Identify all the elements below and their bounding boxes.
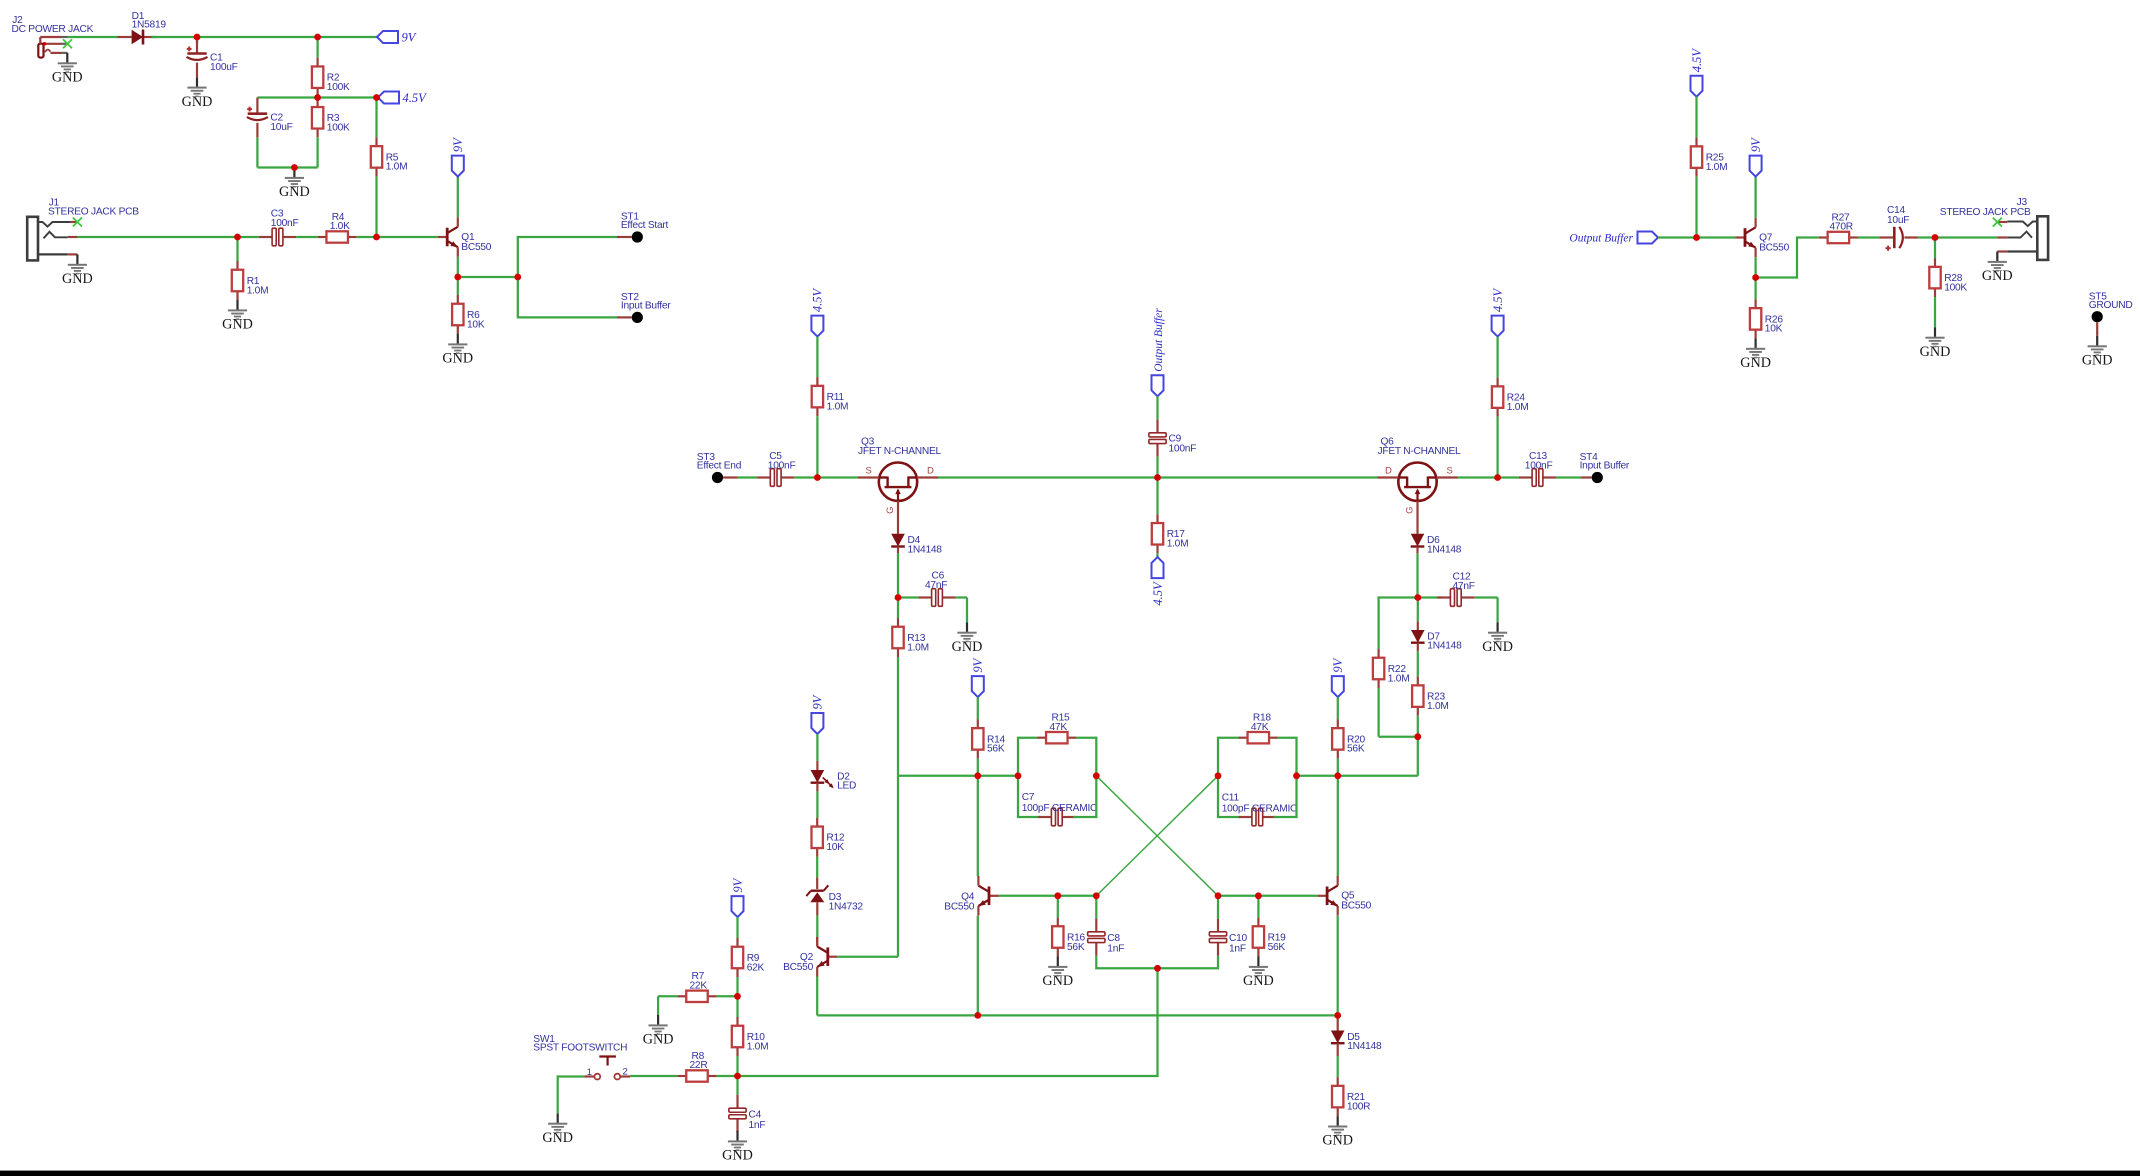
node C11 box left bbox=[1215, 772, 1222, 779]
svg-text:Effect Start: Effect Start bbox=[621, 220, 669, 231]
diode D4 bbox=[891, 534, 942, 556]
svg-text:Output Buffer: Output Buffer bbox=[1153, 308, 1165, 372]
node R25/Q7 base bbox=[1693, 234, 1700, 241]
wire bbox=[658, 995, 677, 997]
wire bbox=[1096, 776, 1218, 896]
wire bbox=[316, 37, 318, 58]
capacitor C6 bbox=[918, 571, 955, 607]
wire bbox=[977, 697, 979, 719]
resistor R17 bbox=[1152, 514, 1189, 553]
node ST5 bbox=[2089, 291, 2133, 322]
svg-text:56K: 56K bbox=[1347, 744, 1365, 755]
wire bbox=[1018, 776, 1040, 817]
diode D5 bbox=[1331, 1031, 1382, 1053]
capacitor C5 bbox=[757, 451, 795, 486]
node 4.5V / R5 bbox=[373, 94, 380, 101]
capacitor C14 bbox=[1879, 205, 1918, 251]
svg-text:STEREO JACK PCB: STEREO JACK PCB bbox=[48, 206, 139, 217]
wire bbox=[318, 96, 377, 98]
supply flag 4.5V supply bbox=[1491, 287, 1505, 336]
wire bbox=[1935, 236, 1997, 238]
supply flag 9V supply bbox=[377, 31, 417, 45]
no-connect mark bbox=[63, 39, 72, 48]
wire bbox=[1218, 738, 1240, 776]
ground (C6) bbox=[952, 622, 983, 655]
node ST2 bbox=[621, 292, 671, 323]
svg-text:4.5V: 4.5V bbox=[811, 287, 825, 312]
switch SW1 SPST footswitch bbox=[533, 1034, 630, 1080]
capacitor C13 bbox=[1519, 451, 1556, 486]
svg-text:GROUND: GROUND bbox=[2089, 300, 2133, 311]
wire bbox=[1057, 896, 1059, 918]
wire bbox=[236, 237, 238, 262]
wire bbox=[458, 276, 518, 278]
wire bbox=[816, 734, 818, 761]
node R14/Q4 col bbox=[974, 772, 981, 779]
ground (C12) bbox=[1482, 622, 1513, 655]
node ST4 bbox=[1580, 452, 1630, 483]
svg-text:47nF: 47nF bbox=[1453, 581, 1475, 592]
supply flag Output Buffer net flag bbox=[1569, 232, 1658, 245]
wire bbox=[1754, 257, 1756, 277]
node C8 top bbox=[1093, 892, 1100, 899]
wire bbox=[977, 758, 979, 775]
svg-text:10uF: 10uF bbox=[1887, 215, 1909, 226]
supply flag 4.5V supply bbox=[1690, 48, 1704, 97]
wire bbox=[999, 895, 1097, 897]
supply flag 9V supply bbox=[971, 657, 985, 697]
wire bbox=[717, 995, 738, 997]
supply flag 4.5V supply bbox=[811, 287, 825, 336]
wire bbox=[196, 40, 198, 54]
svg-text:1N4148: 1N4148 bbox=[1427, 641, 1462, 652]
wire bbox=[377, 236, 438, 238]
svg-text:100nF: 100nF bbox=[768, 461, 796, 472]
supply flag 9V supply bbox=[1749, 137, 1763, 177]
wire bbox=[816, 416, 818, 477]
ground (ST5) bbox=[2082, 336, 2113, 369]
svg-text:100K: 100K bbox=[327, 82, 350, 93]
wire bbox=[457, 277, 459, 295]
diode D7 bbox=[1411, 630, 1462, 652]
wire bbox=[738, 968, 1158, 1076]
capacitor C11 bbox=[1222, 793, 1297, 826]
capacitor C4 bbox=[729, 1095, 765, 1132]
wire bbox=[1918, 236, 1935, 238]
wire bbox=[1417, 643, 1419, 652]
wire bbox=[1458, 476, 1498, 478]
bottom border bar bbox=[0, 1171, 2140, 1176]
wire bbox=[1337, 1043, 1339, 1056]
wire bbox=[457, 257, 459, 277]
svg-text:1.0M: 1.0M bbox=[1388, 673, 1410, 684]
svg-text:56K: 56K bbox=[987, 744, 1005, 755]
wire bbox=[1337, 776, 1339, 877]
wire bbox=[630, 1075, 677, 1077]
node R4/R5/Q1 base bbox=[373, 234, 380, 241]
wire bbox=[736, 1076, 738, 1095]
resistor R8 bbox=[678, 1051, 717, 1082]
svg-text:D: D bbox=[927, 466, 934, 477]
svg-text:SPST FOOTSWITCH: SPST FOOTSWITCH bbox=[533, 1042, 627, 1053]
resistor R24 bbox=[1492, 378, 1529, 417]
wire bbox=[897, 553, 899, 597]
diode D1 bbox=[118, 11, 167, 45]
wire bbox=[1379, 598, 1418, 650]
wire bbox=[1417, 600, 1419, 630]
svg-text:GND: GND bbox=[643, 1032, 674, 1048]
node Q5 emitter / D5 bbox=[1334, 1012, 1341, 1019]
wire bbox=[296, 236, 318, 238]
wire bbox=[723, 476, 738, 478]
capacitor C7 bbox=[1022, 792, 1097, 826]
wire bbox=[816, 791, 818, 818]
wire bbox=[316, 96, 318, 99]
svg-text:G: G bbox=[1404, 507, 1415, 514]
wire bbox=[1417, 716, 1419, 737]
capacitor C8 bbox=[1088, 919, 1124, 956]
diode D6 bbox=[1411, 534, 1462, 556]
wire bbox=[816, 761, 818, 770]
ground (J3) bbox=[1982, 252, 2013, 285]
resistor R26 bbox=[1750, 299, 1783, 338]
wire bbox=[1417, 737, 1419, 776]
svg-text:4.5V: 4.5V bbox=[1491, 287, 1505, 312]
supply flag 9V supply bbox=[731, 877, 745, 917]
wire bbox=[794, 476, 817, 478]
ground (R21) bbox=[1322, 1116, 1353, 1149]
svg-text:1.0M: 1.0M bbox=[1427, 701, 1449, 712]
svg-text:1N4732: 1N4732 bbox=[829, 901, 864, 912]
resistor R3 bbox=[312, 98, 350, 137]
supply flag 4.5V supply bbox=[378, 91, 427, 105]
wire bbox=[518, 237, 617, 277]
wire bbox=[816, 977, 818, 1016]
wire bbox=[357, 236, 377, 238]
wire bbox=[657, 996, 659, 1015]
node C5/R11/Q3-S bbox=[814, 474, 821, 481]
resistor R28 bbox=[1929, 258, 1967, 297]
svg-text:GND: GND bbox=[1243, 973, 1274, 989]
wire bbox=[1496, 337, 1498, 378]
ground (R16) bbox=[1042, 957, 1073, 990]
wire bbox=[817, 476, 858, 478]
wire bbox=[1418, 596, 1442, 598]
svg-text:GND: GND bbox=[1322, 1133, 1353, 1149]
wire bbox=[1096, 956, 1157, 969]
svg-text:S: S bbox=[1447, 466, 1453, 477]
wire bbox=[1337, 697, 1339, 719]
svg-text:1: 1 bbox=[587, 1067, 592, 1078]
wire bbox=[736, 917, 738, 938]
wire bbox=[816, 857, 818, 878]
wire bbox=[196, 40, 198, 43]
svg-text:4.5V: 4.5V bbox=[1151, 581, 1165, 606]
resistor R12 bbox=[812, 818, 845, 857]
wire bbox=[816, 937, 818, 946]
node R16 top bbox=[1054, 892, 1061, 899]
LED D2 bbox=[811, 770, 857, 792]
transistor Q3 bbox=[858, 437, 941, 514]
no-connect mark bbox=[1993, 218, 2002, 227]
svg-text:10K: 10K bbox=[1765, 324, 1783, 335]
node R20/Q5 col bbox=[1334, 772, 1341, 779]
svg-text:BC550: BC550 bbox=[1341, 901, 1371, 912]
wire bbox=[1156, 396, 1158, 419]
svg-text:BC550: BC550 bbox=[944, 901, 974, 912]
wire bbox=[1754, 177, 1756, 218]
resistor R5 bbox=[371, 137, 408, 176]
wire bbox=[897, 657, 899, 776]
svg-text:47K: 47K bbox=[1050, 722, 1068, 733]
wire bbox=[1095, 896, 1097, 919]
svg-text:STEREO JACK PCB: STEREO JACK PCB bbox=[1940, 207, 2031, 218]
transistor Q4 bbox=[944, 876, 998, 916]
wire bbox=[1096, 776, 1218, 896]
svg-text:JFET N-CHANNEL: JFET N-CHANNEL bbox=[1378, 446, 1461, 457]
connector J1 stereo jack bbox=[27, 197, 139, 260]
resistor R13 bbox=[892, 618, 929, 657]
svg-text:62K: 62K bbox=[747, 962, 765, 973]
resistor R25 bbox=[1691, 138, 1728, 177]
svg-text:9V: 9V bbox=[1331, 657, 1345, 672]
capacitor C3 bbox=[259, 209, 299, 246]
wire bbox=[617, 236, 632, 238]
svg-text:GND: GND bbox=[182, 94, 213, 110]
resistor R9 bbox=[732, 938, 765, 977]
resistor R1 bbox=[232, 261, 269, 300]
capacitor C2 bbox=[247, 107, 293, 133]
wire bbox=[897, 501, 899, 534]
capacitor C9 bbox=[1149, 420, 1196, 457]
wire bbox=[1496, 417, 1498, 478]
transistor Q5 bbox=[1318, 876, 1372, 916]
svg-text:1.0M: 1.0M bbox=[386, 162, 408, 173]
zener diode D3 bbox=[806, 885, 863, 912]
wire bbox=[375, 98, 377, 138]
resistor R27 bbox=[1819, 212, 1858, 243]
svg-text:1.0M: 1.0M bbox=[1706, 162, 1728, 173]
wire bbox=[518, 277, 617, 317]
wire bbox=[1496, 598, 1498, 623]
resistor R23 bbox=[1412, 677, 1449, 716]
wire bbox=[736, 977, 738, 996]
wire bbox=[256, 137, 258, 167]
ground (R6) bbox=[442, 334, 473, 367]
svg-text:GND: GND bbox=[952, 639, 983, 655]
wire bbox=[256, 98, 258, 114]
wire bbox=[1754, 278, 1756, 300]
svg-text:2: 2 bbox=[623, 1067, 628, 1078]
node D6/C12/R22 bbox=[1414, 594, 1421, 601]
wire bbox=[152, 36, 198, 38]
wire bbox=[2096, 322, 2098, 336]
svg-text:1nF: 1nF bbox=[1229, 943, 1246, 954]
wire bbox=[1073, 776, 1096, 817]
resistor R7 bbox=[678, 971, 717, 1002]
svg-text:GND: GND bbox=[1482, 639, 1513, 655]
no-connect mark bbox=[73, 218, 82, 227]
wire bbox=[1018, 738, 1037, 776]
svg-text:BC550: BC550 bbox=[783, 962, 813, 973]
svg-text:1.0M: 1.0M bbox=[247, 285, 269, 296]
node R7/R9/R10 bbox=[734, 993, 741, 1000]
svg-text:1.0M: 1.0M bbox=[907, 642, 929, 653]
transistor Q7 bbox=[1736, 218, 1790, 258]
svg-text:9V: 9V bbox=[451, 137, 465, 152]
node R22/R23 node bbox=[1414, 733, 1421, 740]
svg-text:GND: GND bbox=[222, 317, 253, 333]
node C9/R17 node bbox=[1154, 474, 1161, 481]
svg-text:9V: 9V bbox=[971, 657, 985, 672]
node C8/C10 node bbox=[1154, 965, 1161, 972]
svg-text:1N4148: 1N4148 bbox=[908, 545, 943, 556]
svg-text:22K: 22K bbox=[690, 981, 708, 992]
svg-text:1.0K: 1.0K bbox=[330, 221, 350, 232]
wire bbox=[816, 916, 818, 938]
svg-text:9V: 9V bbox=[811, 694, 825, 709]
node C7 box right bbox=[1093, 772, 1100, 779]
node R24/C13 node bbox=[1494, 474, 1501, 481]
svg-text:100pF CERAMIC: 100pF CERAMIC bbox=[1222, 803, 1297, 814]
svg-text:S: S bbox=[866, 466, 872, 477]
svg-text:GND: GND bbox=[1740, 355, 1771, 371]
wire bbox=[898, 775, 1018, 777]
wire bbox=[1158, 476, 1378, 478]
svg-text:100K: 100K bbox=[1944, 282, 1967, 293]
node 9V rail / C1 bbox=[194, 34, 201, 41]
capacitor C1 bbox=[187, 47, 238, 73]
svg-text:4.5V: 4.5V bbox=[403, 91, 428, 105]
wire bbox=[1858, 236, 1880, 238]
svg-text:1N5819: 1N5819 bbox=[132, 19, 167, 30]
wire bbox=[1156, 553, 1158, 557]
wire bbox=[77, 236, 237, 238]
node ST1 bbox=[621, 212, 669, 243]
wire bbox=[1156, 457, 1158, 478]
node ST1/ST2 split bbox=[514, 274, 521, 281]
svg-text:LED: LED bbox=[837, 781, 856, 792]
svg-text:100nF: 100nF bbox=[1169, 443, 1197, 454]
ground (R26) bbox=[1740, 338, 1771, 371]
svg-text:1nF: 1nF bbox=[749, 1120, 766, 1131]
svg-text:BC550: BC550 bbox=[461, 242, 491, 253]
resistor R2 bbox=[312, 58, 350, 97]
svg-text:GND: GND bbox=[1042, 973, 1073, 989]
wire bbox=[1274, 776, 1297, 817]
wire bbox=[68, 36, 118, 38]
resistor R10 bbox=[732, 1017, 769, 1056]
wire bbox=[1474, 596, 1497, 598]
svg-text:GND: GND bbox=[2082, 353, 2113, 369]
wire bbox=[897, 547, 899, 554]
node 9V rail / R2 bbox=[314, 34, 321, 41]
wire bbox=[197, 36, 318, 38]
svg-text:1N4148: 1N4148 bbox=[1347, 1041, 1382, 1052]
svg-text:100uF: 100uF bbox=[210, 62, 238, 73]
wire bbox=[1756, 238, 1819, 278]
wire bbox=[1337, 1056, 1339, 1077]
svg-text:47nF: 47nF bbox=[925, 580, 947, 591]
wire bbox=[1217, 896, 1219, 919]
node R8/R10/C4 node bbox=[734, 1073, 741, 1080]
resistor R16 bbox=[1052, 918, 1085, 957]
svg-text:GND: GND bbox=[442, 351, 473, 367]
svg-text:GND: GND bbox=[279, 184, 310, 200]
wire bbox=[196, 63, 198, 78]
ground (C2) bbox=[279, 168, 310, 201]
wire bbox=[316, 137, 318, 167]
wire bbox=[736, 1130, 738, 1132]
ground (J1) bbox=[62, 254, 93, 287]
wire bbox=[736, 1056, 738, 1076]
wire bbox=[1337, 916, 1339, 1016]
wire bbox=[257, 166, 317, 168]
wire bbox=[1218, 776, 1241, 817]
wire bbox=[1934, 238, 1936, 259]
ground (R19) bbox=[1243, 957, 1274, 990]
wire bbox=[457, 177, 459, 217]
svg-text:Input Buffer: Input Buffer bbox=[1580, 461, 1630, 472]
svg-text:1N4148: 1N4148 bbox=[1427, 545, 1462, 556]
svg-text:1nF: 1nF bbox=[1107, 943, 1124, 954]
svg-text:10uF: 10uF bbox=[270, 122, 292, 133]
svg-text:56K: 56K bbox=[1067, 942, 1085, 953]
svg-text:47K: 47K bbox=[1251, 722, 1269, 733]
svg-text:GND: GND bbox=[722, 1148, 753, 1164]
ground (J2) bbox=[52, 53, 83, 86]
svg-text:1.0M: 1.0M bbox=[1167, 539, 1189, 550]
transistor Q1 bbox=[438, 217, 492, 257]
capacitor C10 bbox=[1209, 919, 1247, 956]
resistor R6 bbox=[452, 295, 485, 334]
resistor R15 bbox=[1037, 713, 1076, 744]
transistor Q2 bbox=[783, 937, 837, 977]
ground (C1) bbox=[182, 77, 213, 110]
node C10 top / diag bbox=[1215, 892, 1222, 899]
svg-text:C4: C4 bbox=[749, 1110, 762, 1121]
svg-text:Effect End: Effect End bbox=[697, 461, 742, 472]
ground (SW1) bbox=[542, 1113, 573, 1146]
wire bbox=[816, 783, 818, 792]
svg-text:Input Buffer: Input Buffer bbox=[621, 301, 671, 312]
wire bbox=[1581, 476, 1592, 478]
ground (R1) bbox=[222, 300, 253, 333]
svg-text:100nF: 100nF bbox=[1525, 461, 1553, 472]
resistor R14 bbox=[972, 719, 1005, 758]
svg-text:22R: 22R bbox=[690, 1060, 708, 1071]
wire bbox=[717, 1075, 738, 1077]
svg-text:1.0M: 1.0M bbox=[1507, 402, 1529, 413]
svg-text:9V: 9V bbox=[402, 31, 417, 45]
wire bbox=[238, 236, 259, 238]
node C11 box right bbox=[1293, 772, 1300, 779]
resistor R22 bbox=[1373, 649, 1410, 688]
wire bbox=[736, 996, 738, 1017]
svg-text:C7: C7 bbox=[1022, 792, 1035, 803]
wire bbox=[1416, 553, 1418, 597]
wire bbox=[1498, 476, 1519, 478]
wire bbox=[738, 476, 758, 478]
wire bbox=[1556, 476, 1581, 478]
supply flag Output Buffer net flag bbox=[1152, 308, 1165, 397]
svg-text:470R: 470R bbox=[1830, 222, 1853, 233]
wire bbox=[1417, 651, 1419, 676]
ground (C4) bbox=[722, 1131, 753, 1164]
svg-text:10K: 10K bbox=[826, 842, 844, 853]
svg-text:100K: 100K bbox=[327, 123, 350, 134]
wire bbox=[557, 1104, 559, 1113]
